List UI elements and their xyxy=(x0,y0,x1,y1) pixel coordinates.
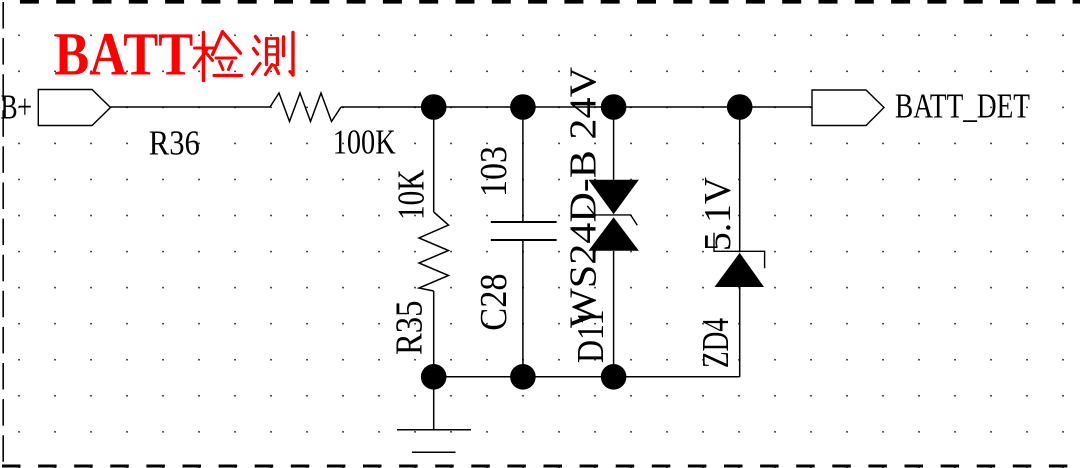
svg-text:BATT_DET: BATT_DET xyxy=(895,87,1030,126)
svg-text:R35: R35 xyxy=(389,301,431,356)
svg-text:WS24D-B 24V: WS24D-B 24V xyxy=(563,66,605,328)
svg-text:10K: 10K xyxy=(391,169,433,220)
svg-text:R36: R36 xyxy=(149,123,200,162)
svg-text:100K: 100K xyxy=(333,123,396,162)
svg-text:103: 103 xyxy=(473,146,515,197)
svg-text:BATT: BATT xyxy=(54,22,193,89)
svg-text:D11: D11 xyxy=(570,309,612,363)
svg-text:5.1V: 5.1V xyxy=(697,176,739,251)
svg-text:ZD4: ZD4 xyxy=(695,318,737,368)
svg-text:B+: B+ xyxy=(1,88,33,127)
svg-text:C28: C28 xyxy=(473,273,515,330)
